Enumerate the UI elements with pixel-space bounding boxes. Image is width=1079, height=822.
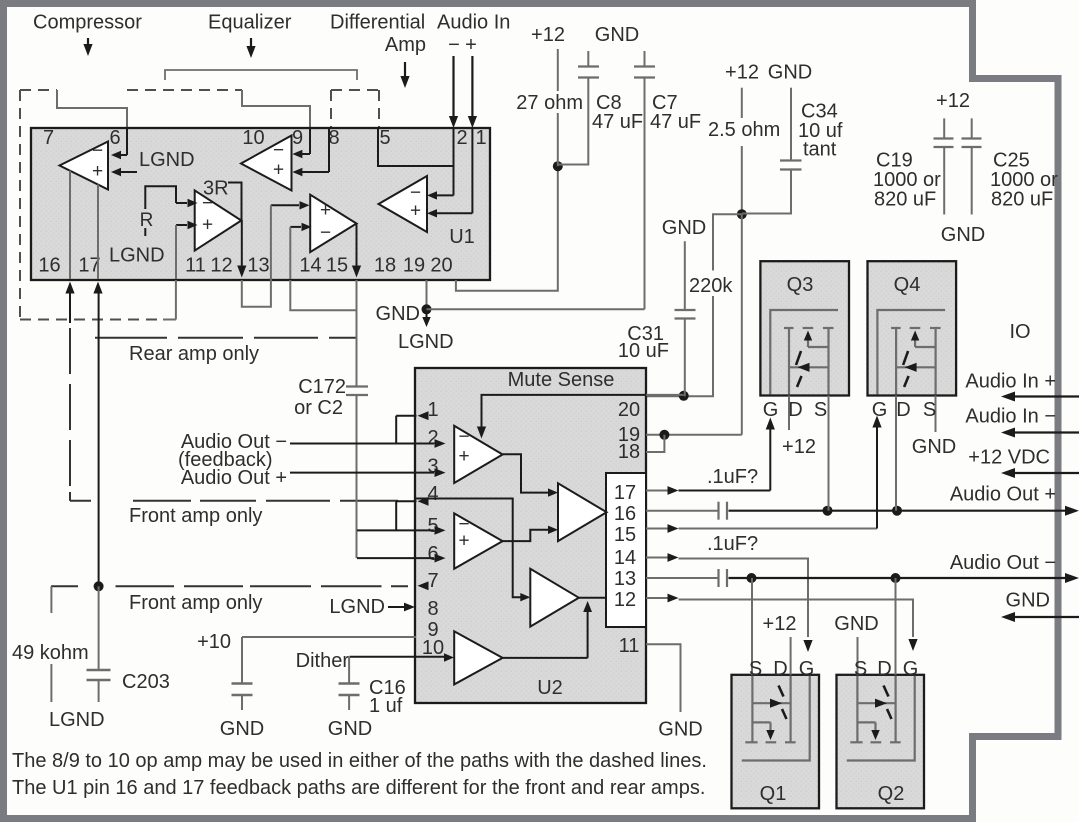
svg-text:LGND: LGND: [329, 596, 385, 618]
svg-text:GND: GND: [768, 62, 812, 84]
svg-text:LGND: LGND: [49, 709, 105, 731]
svg-text:820 uF: 820 uF: [991, 189, 1053, 211]
svg-text:−: −: [320, 223, 331, 244]
svg-text:GND: GND: [376, 303, 420, 325]
svg-text:GND: GND: [834, 613, 878, 635]
svg-text:2: 2: [456, 127, 467, 149]
svg-text:tant: tant: [803, 139, 837, 161]
svg-text:15: 15: [326, 255, 348, 277]
svg-text:+: +: [202, 215, 213, 236]
svg-text:12: 12: [614, 589, 636, 611]
svg-text:Amp: Amp: [385, 34, 426, 56]
svg-text:16: 16: [614, 503, 636, 525]
svg-text:S: S: [854, 658, 867, 680]
svg-text:6: 6: [109, 127, 120, 149]
svg-text:+12: +12: [531, 24, 565, 46]
svg-text:19: 19: [403, 255, 425, 277]
svg-text:16: 16: [38, 255, 60, 277]
svg-text:Equalizer: Equalizer: [208, 12, 292, 34]
svg-text:1 uf: 1 uf: [369, 695, 403, 717]
svg-text:7: 7: [427, 570, 438, 592]
svg-text:.1uF?: .1uF?: [707, 533, 758, 555]
svg-text:8: 8: [328, 127, 339, 149]
svg-text:LGND: LGND: [139, 149, 195, 171]
svg-text:The U1 pin 16 and 17 feedback: The U1 pin 16 and 17 feedback paths are …: [12, 777, 705, 799]
svg-text:13: 13: [247, 255, 269, 277]
svg-text:+12: +12: [936, 90, 970, 112]
svg-text:G: G: [903, 658, 919, 680]
svg-text:Differential: Differential: [330, 12, 425, 34]
svg-text:C203: C203: [122, 671, 170, 693]
svg-text:+: +: [410, 201, 421, 222]
svg-text:+12: +12: [725, 62, 759, 84]
svg-text:1: 1: [427, 399, 438, 421]
svg-text:13: 13: [614, 568, 636, 590]
svg-text:or C2: or C2: [294, 397, 343, 419]
svg-text:G: G: [799, 658, 815, 680]
svg-text:12: 12: [210, 255, 232, 277]
svg-text:LGND: LGND: [398, 331, 454, 353]
svg-text:14: 14: [614, 547, 636, 569]
svg-text:+: +: [92, 161, 103, 182]
svg-text:47 uF: 47 uF: [650, 111, 701, 133]
svg-text:+: +: [273, 160, 284, 181]
svg-text:15: 15: [614, 524, 636, 546]
svg-text:4: 4: [427, 483, 438, 505]
svg-text:Mute Sense: Mute Sense: [508, 369, 615, 391]
svg-text:D: D: [877, 658, 891, 680]
svg-text:8: 8: [427, 598, 438, 620]
svg-text:220k: 220k: [689, 275, 733, 297]
svg-text:+12 VDC: +12 VDC: [968, 447, 1050, 469]
svg-text:D: D: [788, 399, 802, 421]
svg-text:+: +: [458, 446, 469, 467]
svg-text:Audio In: Audio In: [437, 12, 510, 34]
svg-text:G: G: [872, 399, 888, 421]
svg-text:1: 1: [475, 127, 486, 149]
svg-text:Q4: Q4: [894, 274, 921, 296]
svg-text:Dither: Dither: [296, 650, 350, 672]
svg-text:5: 5: [379, 127, 390, 149]
svg-text:Audio In −: Audio In −: [965, 406, 1056, 428]
svg-text:GND: GND: [328, 718, 372, 740]
svg-text:20: 20: [430, 255, 452, 277]
svg-text:20: 20: [618, 399, 640, 421]
svg-text:11: 11: [619, 635, 640, 657]
svg-text:GND: GND: [662, 217, 706, 239]
svg-text:U2: U2: [537, 677, 563, 699]
svg-text:6: 6: [427, 543, 438, 565]
svg-text:27 ohm: 27 ohm: [516, 92, 583, 114]
svg-text:Q2: Q2: [878, 783, 905, 805]
svg-text:Compressor: Compressor: [33, 12, 142, 34]
svg-text:GND: GND: [595, 24, 639, 46]
svg-text:Front amp only: Front amp only: [129, 505, 262, 527]
svg-text:−: −: [92, 141, 103, 162]
svg-text:3R: 3R: [203, 178, 229, 200]
svg-text:GND: GND: [658, 719, 702, 741]
svg-text:+12: +12: [782, 436, 816, 458]
svg-text:Front amp only: Front amp only: [129, 592, 262, 614]
svg-text:Q1: Q1: [760, 783, 787, 805]
svg-text:R: R: [140, 210, 154, 231]
svg-text:LGND: LGND: [109, 245, 165, 267]
svg-text:GND: GND: [220, 718, 264, 740]
svg-text:GND: GND: [1006, 590, 1050, 612]
svg-text:−: −: [273, 140, 284, 161]
svg-text:2.5 ohm: 2.5 ohm: [708, 119, 780, 141]
svg-text:Rear amp only: Rear amp only: [129, 343, 259, 365]
svg-text:18: 18: [618, 441, 640, 463]
svg-text:Q3: Q3: [787, 274, 814, 296]
svg-text:The 8/9 to 10 op amp may be us: The 8/9 to 10 op amp may be used in eith…: [12, 750, 707, 772]
svg-text:7: 7: [43, 127, 54, 149]
svg-text:17: 17: [614, 482, 636, 504]
svg-text:IO: IO: [1009, 321, 1030, 343]
svg-text:S: S: [923, 399, 936, 421]
svg-text:+: +: [458, 531, 469, 552]
svg-text:GND: GND: [912, 436, 956, 458]
svg-text:+12: +12: [763, 613, 797, 635]
svg-text:.1uF?: .1uF?: [707, 466, 758, 488]
svg-text:D: D: [896, 399, 910, 421]
svg-text:GND: GND: [941, 224, 985, 246]
svg-text:+: +: [465, 34, 477, 56]
svg-text:Audio Out +: Audio Out +: [950, 484, 1056, 506]
svg-text:−: −: [448, 34, 460, 56]
svg-text:10 uF: 10 uF: [618, 340, 669, 362]
svg-text:+10: +10: [197, 631, 231, 653]
svg-text:11: 11: [185, 255, 206, 277]
svg-text:10: 10: [242, 127, 264, 149]
svg-text:Audio Out +: Audio Out +: [181, 467, 287, 489]
svg-text:G: G: [763, 399, 779, 421]
svg-text:Audio Out −: Audio Out −: [950, 552, 1056, 574]
svg-text:C172: C172: [298, 376, 346, 398]
svg-text:U1: U1: [449, 226, 475, 248]
svg-text:14: 14: [299, 255, 321, 277]
svg-text:Audio In +: Audio In +: [965, 371, 1056, 393]
svg-text:S: S: [814, 399, 827, 421]
svg-text:D: D: [773, 658, 787, 680]
svg-text:S: S: [749, 658, 762, 680]
svg-text:−: −: [458, 427, 469, 448]
svg-text:9: 9: [292, 127, 303, 149]
svg-text:18: 18: [374, 255, 396, 277]
svg-text:820 uF: 820 uF: [874, 189, 936, 211]
svg-text:+: +: [320, 200, 331, 221]
svg-text:47 uF: 47 uF: [592, 111, 643, 133]
svg-text:49 kohm: 49 kohm: [12, 642, 89, 664]
